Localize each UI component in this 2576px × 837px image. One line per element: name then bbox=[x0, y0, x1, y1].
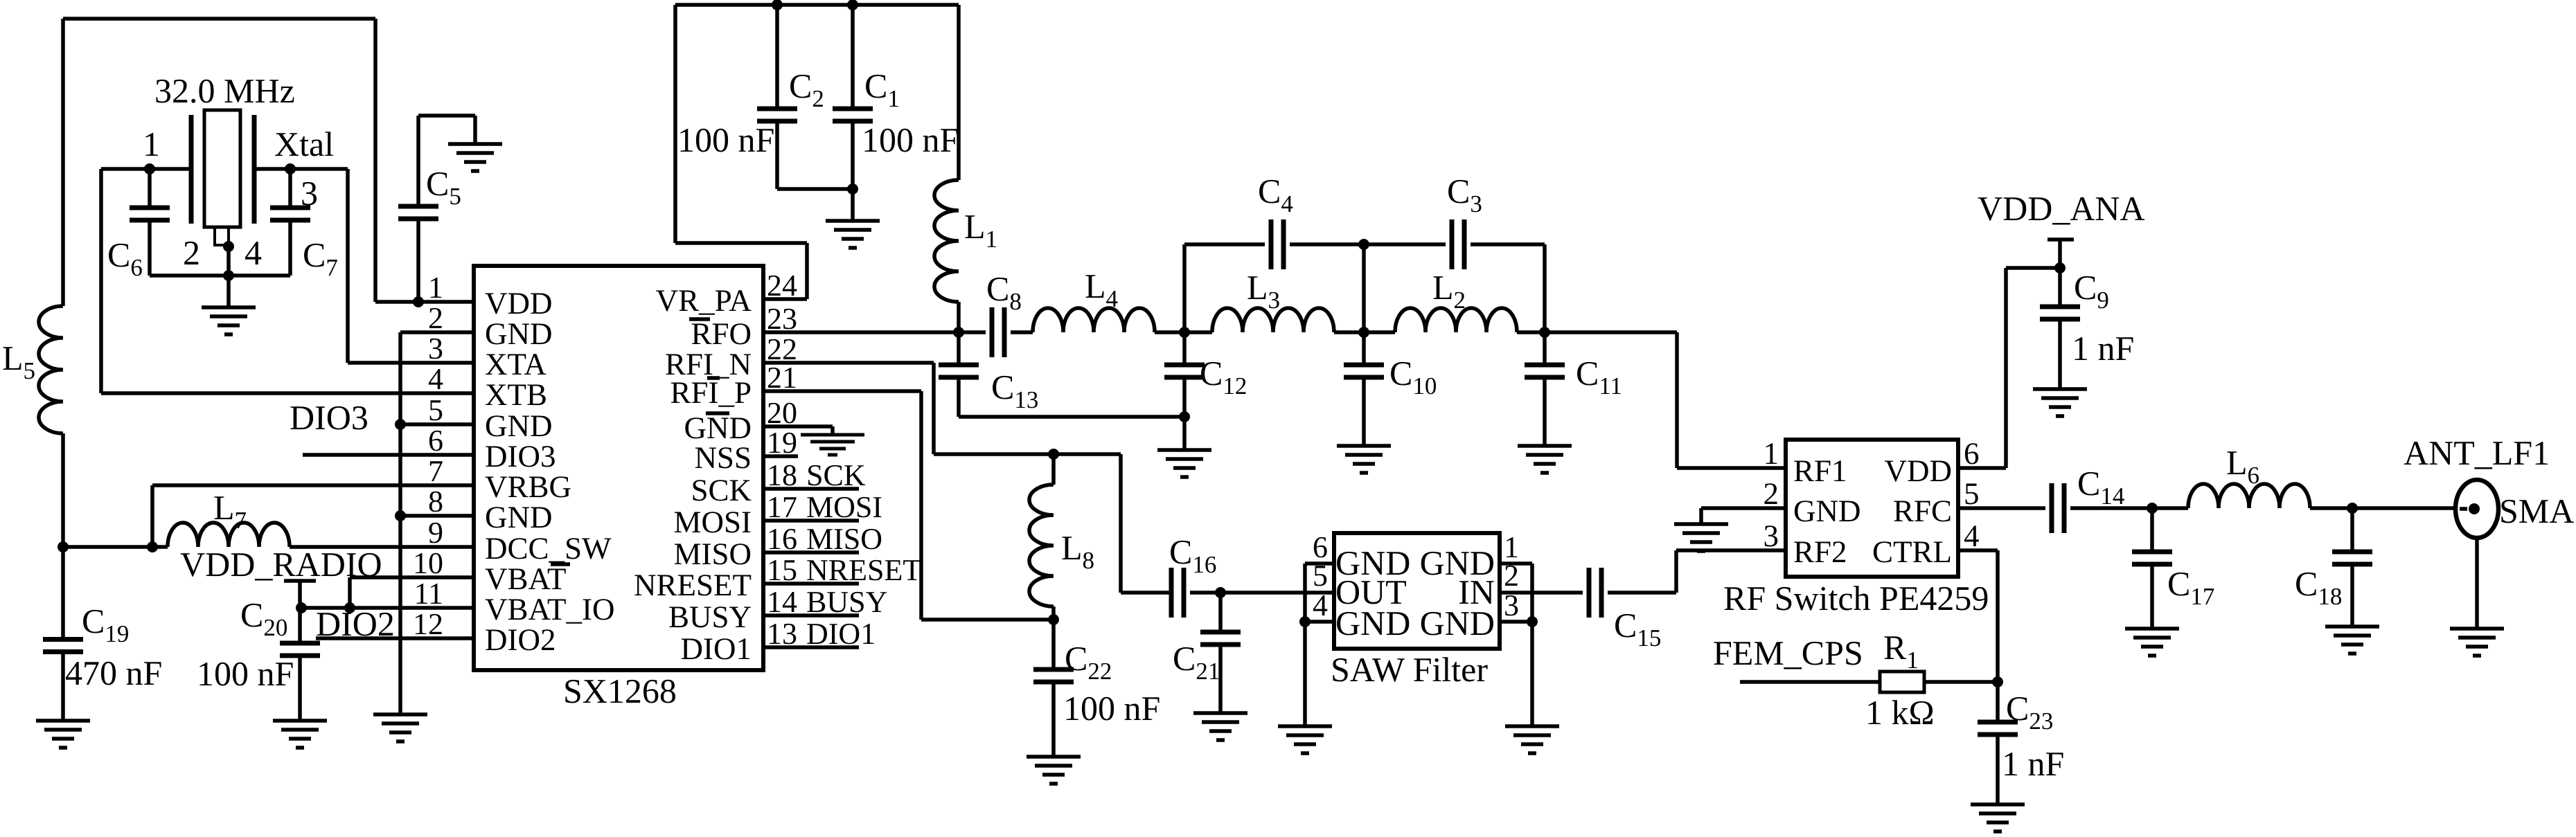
svg-text:100 nF: 100 nF bbox=[1063, 689, 1160, 728]
svg-text:DIO3: DIO3 bbox=[290, 398, 368, 437]
svg-text:23: 23 bbox=[767, 302, 797, 336]
svg-text:ANT_LF1: ANT_LF1 bbox=[2404, 433, 2550, 472]
svg-text:4: 4 bbox=[245, 233, 262, 272]
svg-text:2: 2 bbox=[1764, 476, 1779, 511]
svg-text:2: 2 bbox=[183, 233, 200, 272]
svg-text:FEM_CPS: FEM_CPS bbox=[1713, 633, 1863, 672]
svg-text:4: 4 bbox=[1313, 588, 1328, 622]
svg-text:1 nF: 1 nF bbox=[2072, 329, 2134, 368]
svg-text:GND: GND bbox=[1793, 494, 1861, 528]
svg-text:MISO: MISO bbox=[673, 537, 752, 571]
svg-text:3: 3 bbox=[1504, 588, 1519, 622]
svg-text:3: 3 bbox=[1764, 519, 1779, 553]
svg-text:100 nF: 100 nF bbox=[677, 120, 774, 159]
svg-text:19: 19 bbox=[767, 426, 797, 460]
svg-text:3: 3 bbox=[301, 174, 318, 213]
svg-text:100 nF: 100 nF bbox=[862, 120, 959, 159]
svg-text:RF Switch PE4259: RF Switch PE4259 bbox=[1723, 579, 1989, 618]
svg-text:VDD_RADIO: VDD_RADIO bbox=[180, 545, 382, 584]
svg-text:7: 7 bbox=[428, 454, 443, 488]
svg-text:DIO1: DIO1 bbox=[681, 631, 752, 666]
svg-text:13: 13 bbox=[767, 617, 797, 651]
svg-text:NSS: NSS bbox=[694, 440, 752, 475]
svg-text:Xtal: Xtal bbox=[274, 125, 334, 163]
svg-text:VDD: VDD bbox=[1885, 453, 1953, 488]
svg-text:18: 18 bbox=[767, 458, 797, 492]
svg-text:VDD: VDD bbox=[485, 286, 553, 321]
svg-text:DIO2: DIO2 bbox=[316, 604, 395, 643]
svg-text:MOSI: MOSI bbox=[673, 505, 752, 539]
svg-text:XTB: XTB bbox=[485, 377, 547, 412]
svg-text:5: 5 bbox=[428, 393, 443, 427]
svg-text:DIO1: DIO1 bbox=[806, 617, 876, 651]
svg-text:21: 21 bbox=[767, 361, 797, 395]
svg-text:DIO3: DIO3 bbox=[485, 439, 556, 474]
svg-text:VBAT: VBAT bbox=[485, 561, 567, 596]
svg-text:GND: GND bbox=[485, 408, 553, 443]
svg-text:1 kΩ: 1 kΩ bbox=[1865, 693, 1935, 732]
svg-text:20: 20 bbox=[767, 396, 797, 430]
svg-text:2: 2 bbox=[428, 301, 443, 335]
svg-text:GND: GND bbox=[1420, 604, 1495, 642]
svg-text:1: 1 bbox=[428, 271, 443, 305]
svg-text:1 nF: 1 nF bbox=[2002, 744, 2064, 783]
svg-text:11: 11 bbox=[414, 577, 443, 611]
svg-text:RF2: RF2 bbox=[1793, 534, 1847, 569]
svg-text:VR_PA: VR_PA bbox=[656, 283, 752, 318]
svg-text:DCC_SW: DCC_SW bbox=[485, 531, 612, 566]
svg-text:VRBG: VRBG bbox=[485, 469, 571, 504]
svg-text:SX1268: SX1268 bbox=[563, 672, 677, 710]
svg-text:SAW Filter: SAW Filter bbox=[1331, 650, 1488, 689]
svg-text:RFC: RFC bbox=[1893, 494, 1952, 528]
svg-text:8: 8 bbox=[428, 485, 443, 519]
svg-text:GND: GND bbox=[485, 500, 553, 534]
svg-text:RF1: RF1 bbox=[1793, 453, 1847, 488]
svg-text:3: 3 bbox=[428, 332, 443, 366]
svg-text:RFI_P: RFI_P bbox=[670, 375, 752, 410]
svg-text:5: 5 bbox=[1313, 559, 1328, 593]
svg-text:2: 2 bbox=[1504, 559, 1519, 593]
svg-text:32.0 MHz: 32.0 MHz bbox=[154, 71, 295, 110]
svg-text:1: 1 bbox=[1764, 436, 1779, 471]
svg-text:XTA: XTA bbox=[485, 347, 547, 381]
svg-text:MOSI: MOSI bbox=[806, 490, 882, 524]
svg-text:1: 1 bbox=[143, 125, 160, 163]
svg-text:9: 9 bbox=[428, 516, 443, 550]
svg-text:100 nF: 100 nF bbox=[197, 654, 294, 693]
svg-text:6: 6 bbox=[1964, 436, 1980, 471]
svg-text:NRESET: NRESET bbox=[806, 553, 921, 587]
svg-text:6: 6 bbox=[428, 424, 443, 458]
svg-text:4: 4 bbox=[1964, 519, 1980, 553]
svg-text:5: 5 bbox=[1964, 476, 1980, 511]
svg-text:MISO: MISO bbox=[806, 522, 882, 556]
svg-text:CTRL: CTRL bbox=[1872, 534, 1952, 569]
svg-text:SMA: SMA bbox=[2499, 492, 2574, 530]
svg-text:17: 17 bbox=[767, 490, 797, 524]
svg-text:GND: GND bbox=[485, 316, 553, 351]
svg-text:BUSY: BUSY bbox=[806, 585, 887, 619]
svg-text:SCK: SCK bbox=[806, 458, 866, 492]
svg-text:RFO: RFO bbox=[691, 316, 752, 351]
svg-text:VDD_ANA: VDD_ANA bbox=[1978, 189, 2145, 228]
svg-text:470 nF: 470 nF bbox=[65, 654, 162, 692]
svg-text:NRESET: NRESET bbox=[634, 568, 752, 602]
svg-text:DIO2: DIO2 bbox=[485, 622, 556, 657]
svg-text:VBAT_IO: VBAT_IO bbox=[485, 592, 615, 627]
svg-text:14: 14 bbox=[767, 585, 797, 619]
svg-text:24: 24 bbox=[767, 269, 797, 303]
svg-text:10: 10 bbox=[413, 546, 443, 580]
svg-text:4: 4 bbox=[428, 362, 443, 396]
svg-text:GND: GND bbox=[1335, 604, 1410, 642]
svg-text:BUSY: BUSY bbox=[668, 600, 752, 634]
svg-text:SCK: SCK bbox=[691, 473, 752, 507]
svg-text:12: 12 bbox=[413, 607, 443, 641]
svg-text:16: 16 bbox=[767, 522, 797, 556]
svg-text:15: 15 bbox=[767, 553, 797, 587]
